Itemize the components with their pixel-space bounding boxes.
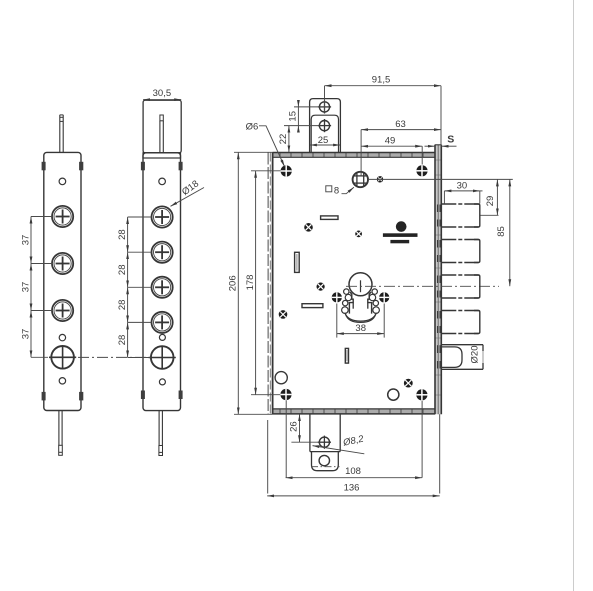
svg-text:37: 37 bbox=[20, 235, 31, 246]
svg-text:37: 37 bbox=[20, 282, 31, 293]
svg-text:28: 28 bbox=[117, 335, 128, 346]
svg-text:108: 108 bbox=[345, 466, 361, 477]
svg-text:8: 8 bbox=[334, 185, 339, 196]
svg-text:136: 136 bbox=[344, 483, 360, 494]
svg-text:29: 29 bbox=[485, 196, 496, 207]
svg-text:28: 28 bbox=[117, 229, 128, 240]
svg-text:30: 30 bbox=[457, 181, 468, 192]
svg-text:63: 63 bbox=[395, 119, 406, 130]
svg-text:28: 28 bbox=[117, 300, 128, 311]
svg-text:26: 26 bbox=[289, 421, 300, 432]
svg-text:S: S bbox=[447, 134, 454, 146]
svg-text:22: 22 bbox=[278, 134, 289, 145]
svg-text:38: 38 bbox=[355, 323, 366, 334]
svg-text:15: 15 bbox=[287, 111, 298, 122]
svg-text:25: 25 bbox=[318, 135, 329, 146]
svg-text:37: 37 bbox=[20, 329, 31, 340]
svg-text:206: 206 bbox=[227, 275, 238, 291]
svg-text:49: 49 bbox=[385, 136, 396, 147]
svg-text:30,5: 30,5 bbox=[153, 88, 172, 99]
svg-text:Ø20: Ø20 bbox=[469, 346, 480, 364]
svg-text:178: 178 bbox=[245, 275, 256, 291]
svg-text:Ø6: Ø6 bbox=[246, 121, 259, 132]
svg-text:91,5: 91,5 bbox=[372, 74, 391, 85]
svg-text:28: 28 bbox=[117, 265, 128, 276]
svg-text:85: 85 bbox=[496, 226, 507, 237]
